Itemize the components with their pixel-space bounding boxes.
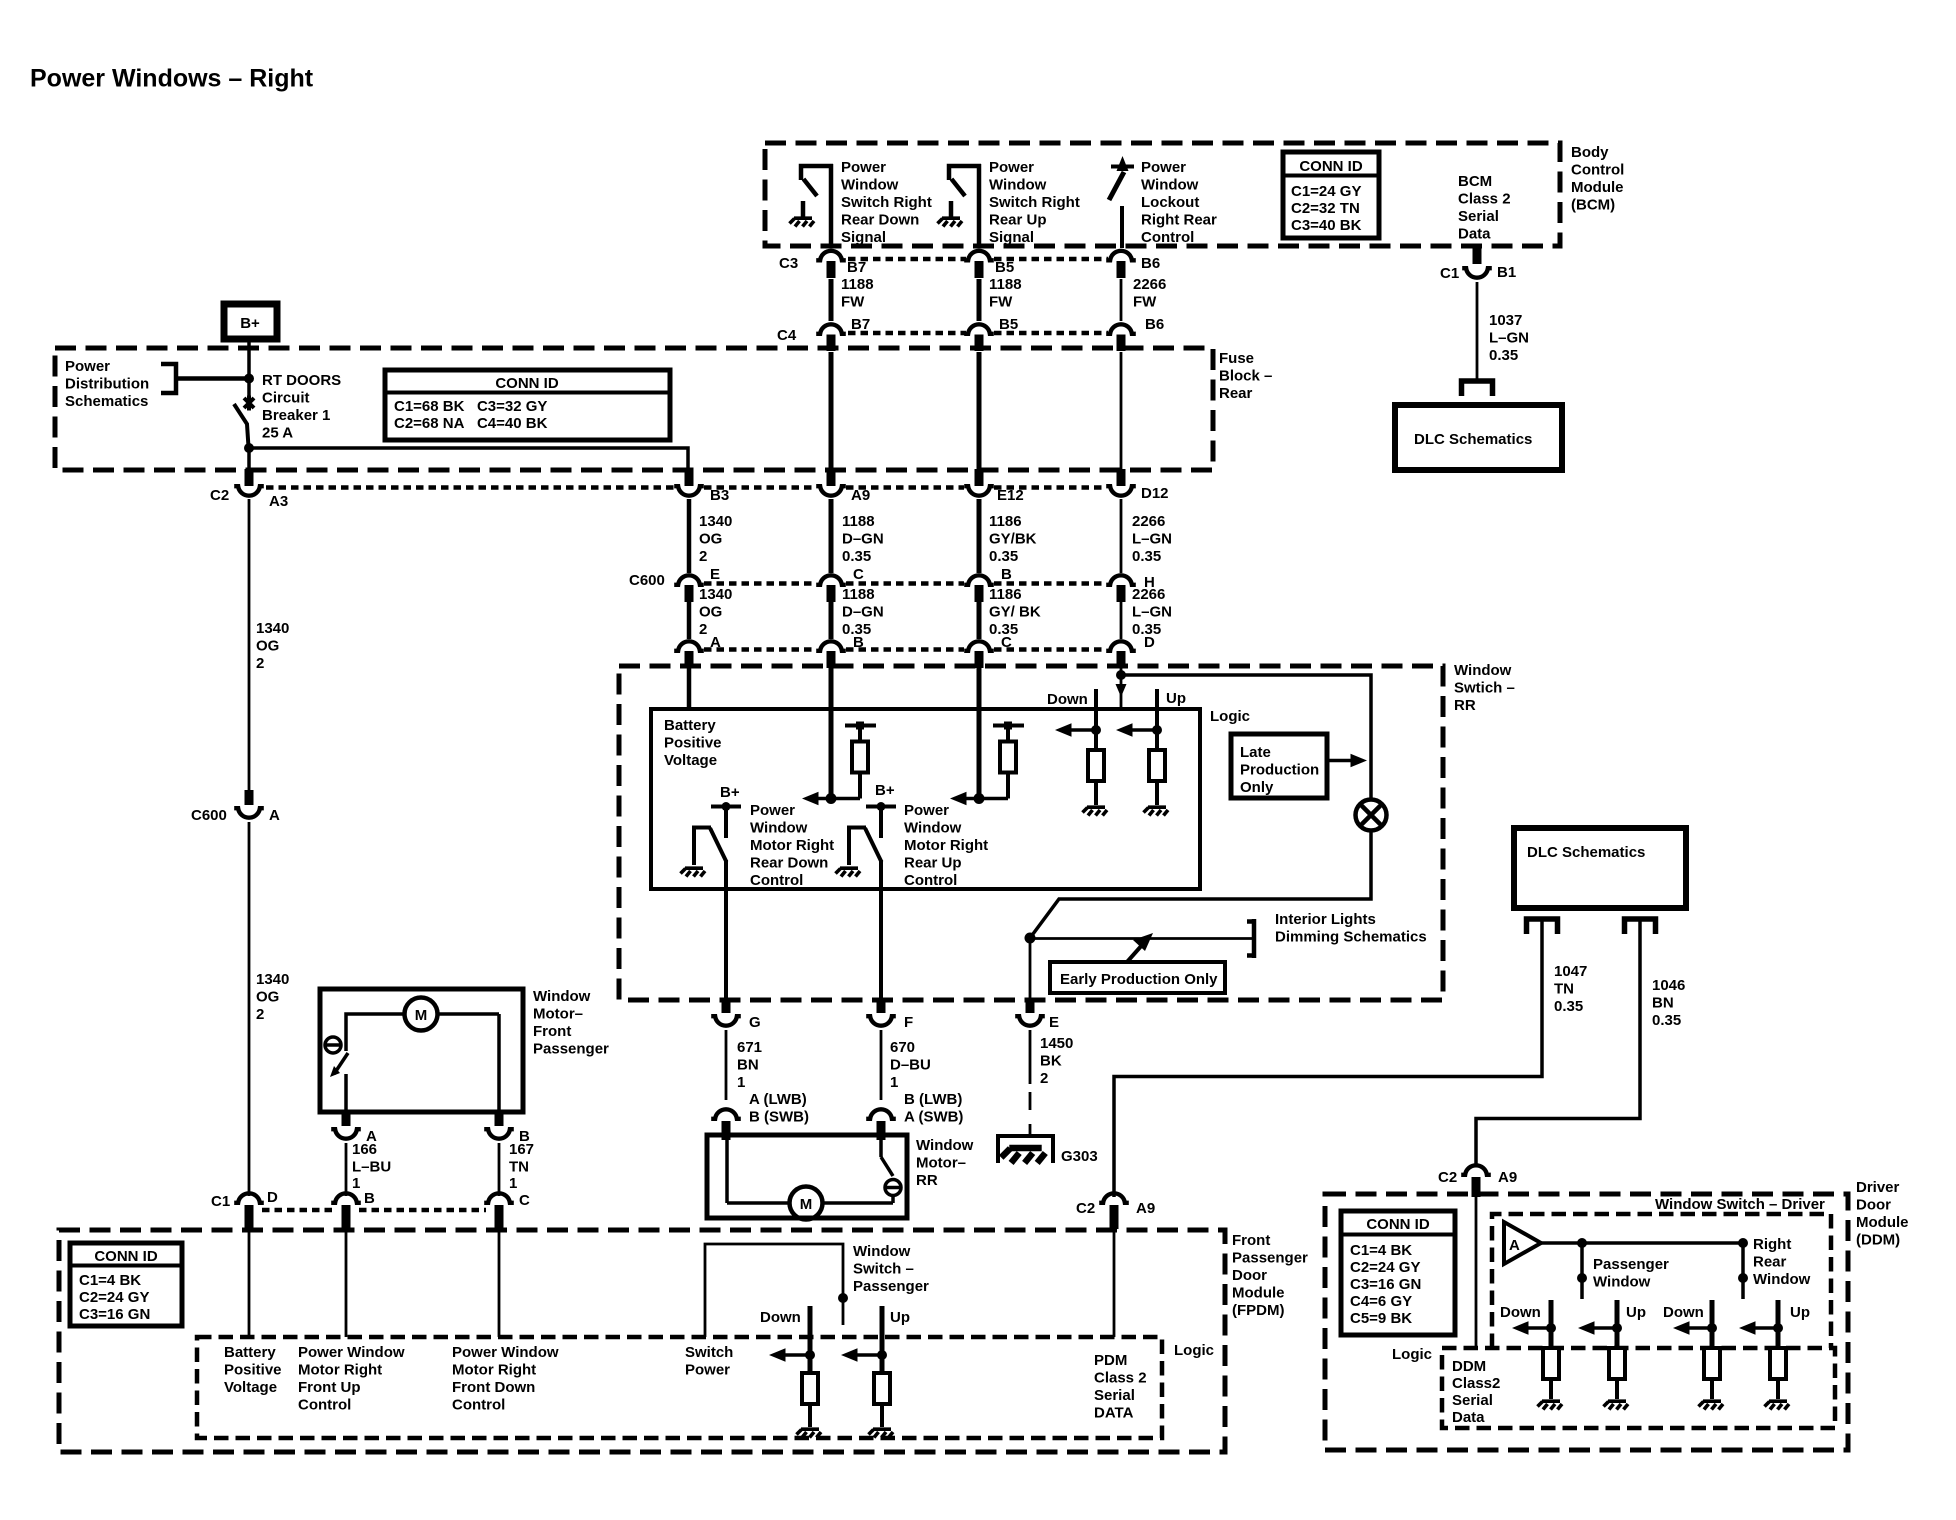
label 1046 BN 0.35 [1652,977,1685,1029]
svg-text:D: D [1144,634,1155,651]
svg-text:BK: BK [1040,1053,1062,1070]
svg-text:Block –: Block – [1219,368,1272,385]
svg-text:FW: FW [989,294,1013,311]
switch Power Window Motor Right Rear Up Control [849,828,882,1001]
wire C into logic box [977,668,982,798]
svg-text:L–BU: L–BU [352,1159,391,1176]
connector C (RR switch) [964,634,1012,651]
svg-text:D: D [267,1189,278,1206]
DDM logic dashed box [1442,1348,1835,1428]
svg-text:RR: RR [916,1172,938,1189]
Down sense leg [1055,689,1104,805]
wire label 1188 D-GN 0.35 (col2) [842,513,884,565]
svg-text:B1: B1 [1497,264,1516,281]
svg-text:Power Window: Power Window [298,1344,405,1361]
ground (switch 1) [790,218,815,226]
svg-text:Battery: Battery [664,717,716,734]
connector C600 B [964,566,1012,585]
wire H to D [1120,602,1123,639]
pin below C3 col4 [1117,261,1126,278]
amp triangle A [1504,1222,1541,1264]
pin below C4 col3 [975,335,984,352]
motor FP circuit [325,1014,499,1112]
svg-text:C2: C2 [210,487,229,504]
svg-text:DDM: DDM [1452,1358,1486,1375]
svg-text:2: 2 [699,548,707,565]
staple 1047 [1527,919,1558,934]
svg-text:Power: Power [750,802,795,819]
svg-text:Power Window: Power Window [452,1344,559,1361]
svg-text:F: F [904,1014,913,1031]
svg-text:BN: BN [1652,995,1674,1012]
DLC Schematics box (mid right) [1514,828,1686,908]
svg-text:Window: Window [750,820,808,837]
svg-text:A3: A3 [269,493,288,510]
svg-text:C600: C600 [629,572,665,589]
svg-text:Motor Right: Motor Right [750,837,834,854]
Window Switch Passenger feed bracket [705,1244,848,1337]
wire segment C3-C4 col4 [1120,279,1123,321]
svg-text:C2=24 GY: C2=24 GY [1350,1259,1420,1276]
svg-text:Motor Right: Motor Right [298,1362,382,1379]
wire C600/A down [248,822,251,1196]
CONN ID box (FPDM) [70,1243,182,1326]
svg-text:Class 2: Class 2 [1458,191,1511,208]
svg-text:CONN ID: CONN ID [94,1248,158,1265]
passenger up leg [841,1306,890,1427]
label Power Window Motor Right Rear Down Control [750,802,834,889]
svg-text:Rear: Rear [1753,1254,1787,1271]
svg-text:Module: Module [1571,179,1624,196]
wire C to B [829,602,834,639]
svg-text:A (SWB): A (SWB) [904,1109,963,1126]
connector B (FPDM) [331,1190,375,1207]
connector C600/A (left col) [191,790,280,824]
junction dot D branch [1116,670,1126,680]
svg-text:Motor Right: Motor Right [904,837,988,854]
svg-text:Passenger: Passenger [533,1041,609,1058]
svg-text:Door: Door [1232,1267,1267,1284]
svg-text:B5: B5 [995,259,1014,276]
svg-text:B: B [364,1190,375,1207]
junction dot interior lights [1025,933,1036,944]
svg-text:C3=16 GN: C3=16 GN [1350,1276,1421,1293]
svg-text:Down: Down [1500,1304,1541,1321]
wires C4 down to fuse rows [831,352,979,470]
svg-text:D–BU: D–BU [890,1057,931,1074]
staple 1046 [1625,919,1656,934]
label Power Window Motor Right Front Up Control [298,1344,405,1414]
pin C600 C [827,585,836,602]
svg-text:OG: OG [256,638,279,655]
Up sense leg [1116,689,1165,805]
label Power Window Motor Right Rear Up Control [904,802,988,889]
svg-text:GY/ BK: GY/ BK [989,604,1041,621]
dots row C4 [848,331,1108,336]
ground (rear down switch) [681,868,706,876]
svg-text:1: 1 [890,1074,898,1091]
svg-text:2: 2 [256,655,264,672]
FPDM logic dashed box [197,1337,1162,1438]
connector A9 [816,469,870,504]
svg-text:1450: 1450 [1040,1035,1073,1052]
ground (driver leg 3) [1699,1401,1724,1409]
svg-text:B (LWB): B (LWB) [904,1091,962,1108]
svg-text:Motor–: Motor– [533,1006,583,1023]
svg-text:C600: C600 [191,807,227,824]
pin A LWB [722,1121,731,1140]
svg-text:C2=68 NA C4=40 BK: C2=68 NA C4=40 BK [394,415,548,432]
switch: Power Window Switch Right Rear Down Signal [801,164,833,248]
label 1047 TN 0.35 [1554,963,1587,1015]
driver leg down 1 [1512,1300,1559,1399]
svg-text:Data: Data [1458,226,1491,243]
wire B down [498,1143,501,1196]
pin C FPDM [495,1205,504,1229]
svg-text:Up: Up [1166,690,1186,707]
wire D12 to C600 H [1120,499,1123,573]
svg-text:Door: Door [1856,1197,1891,1214]
svg-text:Window: Window [1141,177,1199,194]
svg-text:OG: OG [256,989,279,1006]
pin B FPDM [342,1205,351,1229]
switch Power Window Motor Right Rear Down Control [694,828,727,1001]
DDM dashed box [1325,1194,1848,1450]
label Power Distribution Schematics [65,358,149,410]
svg-text:2: 2 [699,621,707,638]
svg-text:C1: C1 [211,1193,230,1210]
svg-text:L–GN: L–GN [1132,604,1172,621]
svg-text:FW: FW [1133,294,1157,311]
B+ post (rear up) [866,802,896,838]
svg-text:DATA: DATA [1094,1405,1134,1422]
connector C1/B1 (BCM) [1440,248,1516,282]
svg-text:Production: Production [1240,762,1319,779]
svg-text:Class2: Class2 [1452,1375,1500,1392]
svg-text:671: 671 [737,1039,762,1056]
junction dot col3 [974,793,985,804]
junction dot right rear window [1738,1238,1748,1248]
connector D12 [1106,469,1168,502]
wire amp to drops [1541,1241,1743,1245]
svg-text:CONN ID: CONN ID [495,375,559,392]
svg-text:A9: A9 [1136,1200,1155,1217]
wire A down [345,1143,348,1196]
svg-text:M: M [800,1196,813,1213]
svg-text:Switch Right: Switch Right [989,194,1080,211]
motor RR M circle [790,1187,823,1220]
svg-text:Control: Control [452,1397,505,1414]
wire breaker to B3 column [249,448,688,470]
ground (driver leg 2) [1604,1401,1629,1409]
svg-text:Driver: Driver [1856,1179,1900,1196]
pin D [1117,651,1126,668]
wire into DDM [1475,1197,1478,1348]
svg-text:Rear: Rear [1219,385,1253,402]
wire 1037 L-GN 0.35 [1476,282,1479,381]
CONN ID box (BCM) [1283,152,1379,238]
svg-text:Window: Window [1593,1274,1651,1291]
label Battery Positive Voltage (RR) [664,717,722,769]
svg-text:Rear Down: Rear Down [750,855,828,872]
svg-text:Power: Power [989,159,1034,176]
junction dot col2 [826,793,837,804]
wire label 1188 FW col2 [841,276,874,311]
label Interior Lights Dimming Schematics [1275,911,1427,946]
connector C4 col3 [964,316,1018,334]
FPDM dashed box [59,1230,1225,1452]
svg-text:Right: Right [1753,1236,1791,1253]
svg-text:G: G [749,1014,761,1031]
svg-text:Passenger: Passenger [1593,1256,1669,1273]
svg-text:1188: 1188 [841,276,874,293]
svg-text:L–GN: L–GN [1489,330,1529,347]
wire label 670 D-BU 1 [890,1039,931,1091]
driver leg up 2 [1739,1300,1786,1399]
svg-text:Rear Up: Rear Up [904,855,962,872]
pin C600 H [1117,585,1126,602]
svg-text:Early Production Only: Early Production Only [1060,971,1218,988]
label DDM Class2 Serial Data [1452,1358,1500,1426]
wire segment C3-C4 col3 [977,279,982,321]
bracket to Power Distribution [161,364,246,393]
connector B3 [674,469,729,504]
connector C4 col2 [777,316,870,344]
svg-text:1340: 1340 [256,620,289,637]
svg-text:Distribution: Distribution [65,376,149,393]
wire C2 down to C600/A [248,499,251,792]
wire F down [880,1030,883,1100]
svg-text:(FPDM): (FPDM) [1232,1302,1285,1319]
Early Production Only box [1050,962,1225,993]
svg-text:Serial: Serial [1458,208,1499,225]
svg-text:Switch: Switch [685,1344,733,1361]
connector B (RR switch) [816,634,864,651]
svg-text:Signal: Signal [989,229,1034,246]
svg-text:TN: TN [1554,981,1574,998]
svg-text:C2: C2 [1076,1200,1095,1217]
up-switch wiper arrow (col3) [950,792,1008,806]
svg-text:1340: 1340 [699,586,732,603]
svg-text:Power: Power [685,1362,730,1379]
svg-text:RT DOORS: RT DOORS [262,372,341,389]
svg-text:Battery: Battery [224,1344,276,1361]
svg-text:CONN ID: CONN ID [1366,1216,1430,1233]
wire B+ down [247,339,251,398]
connector C3 col3 [964,251,1014,276]
svg-text:Control: Control [750,872,803,889]
connector C600 E [629,566,720,589]
svg-text:BN: BN [737,1057,759,1074]
label Fuse Block - Rear [1219,350,1272,402]
wire col4 C4 down [1120,352,1123,470]
svg-text:1188: 1188 [842,513,875,530]
svg-text:Module: Module [1856,1214,1909,1231]
svg-text:Schematics: Schematics [65,393,148,410]
connector B LWB dome [866,1109,896,1119]
wire segment C3-C4 col2 [829,279,834,321]
svg-text:Voltage: Voltage [664,752,717,769]
svg-text:C3=16 GN: C3=16 GN [79,1306,150,1323]
svg-text:Signal: Signal [841,229,886,246]
label: Power Window Switch Right Rear Down Signal [841,159,932,246]
connector A (FP motor) [331,1112,377,1145]
junction dot breaker out [244,443,254,453]
wire to dimming bracket [1030,937,1254,940]
svg-text:GY/BK: GY/BK [989,531,1037,548]
svg-text:Power: Power [904,802,949,819]
motor RR circuit [727,1140,901,1203]
svg-text:OG: OG [699,531,722,548]
svg-text:1: 1 [737,1074,745,1091]
BCM dashed box [765,143,1560,246]
svg-text:2: 2 [1040,1070,1048,1087]
svg-text:Passenger: Passenger [853,1278,929,1295]
svg-text:C1=4 BK: C1=4 BK [79,1272,141,1289]
label Driver Door Module (DDM) [1856,1179,1909,1249]
pin B LWB [877,1121,886,1140]
svg-text:B5: B5 [999,316,1018,333]
junction dot passenger window [1577,1238,1587,1248]
label Switch Power [685,1344,733,1379]
wire label 167 TN 1 [509,1141,534,1192]
svg-text:0.35: 0.35 [1132,548,1161,565]
wire label 2266 L-GN 0.35 (col4) [1132,513,1172,565]
svg-text:D–GN: D–GN [842,604,884,621]
connector C3 col4 [1106,251,1160,272]
svg-text:0.35: 0.35 [1489,347,1518,364]
svg-text:Body: Body [1571,144,1609,161]
svg-text:Module: Module [1232,1285,1285,1302]
svg-text:C2=32 TN: C2=32 TN [1291,200,1360,217]
svg-text:1188: 1188 [842,586,875,603]
drop right rear window [1738,1243,1748,1299]
svg-text:1047: 1047 [1554,963,1587,980]
pin C2 A9 right [1472,1177,1481,1197]
pin C600 E [685,585,694,602]
driver leg down 2 [1673,1300,1720,1399]
wire breaker down to C2 [247,448,251,470]
svg-text:Voltage: Voltage [224,1379,277,1396]
svg-text:(BCM): (BCM) [1571,197,1615,214]
circuit breaker RT DOORS [234,396,254,448]
svg-text:C3: C3 [779,255,798,272]
connector C2/A9 (right) [1438,1165,1517,1186]
connector B (FP motor) [484,1112,530,1145]
svg-text:C2: C2 [1438,1169,1457,1186]
svg-text:D12: D12 [1141,485,1169,502]
svg-text:B+: B+ [240,315,260,332]
junction dot at breaker top [244,374,254,384]
svg-text:Interior Lights: Interior Lights [1275,911,1376,928]
terminal staple into DLC [1462,381,1493,396]
DLC Schematics box (top) [1395,405,1562,470]
wire E12 to C600 B [977,499,982,573]
wire E down from junction [1029,938,1032,1002]
svg-text:670: 670 [890,1039,915,1056]
svg-text:FW: FW [841,294,865,311]
down-switch wiper arrow (col2) [802,792,860,806]
wire A9 to C600 C [829,499,834,573]
wire label 1340 OG 2 (left col) [256,620,289,672]
pin below C4 col4 [1117,335,1126,352]
ground (passenger up) [869,1429,894,1437]
connector C2/A9 (mid) [1076,1193,1155,1217]
wire 1047 TN 0.35 [1114,921,1542,1197]
connector C1/D [211,1189,278,1210]
svg-text:Rear Down: Rear Down [841,212,919,229]
B+ post (rear down) [711,802,741,838]
svg-text:M: M [415,1007,428,1024]
G303 ground cradle [998,1136,1053,1163]
svg-text:Class 2: Class 2 [1094,1370,1147,1387]
svg-text:Up: Up [890,1309,910,1326]
svg-text:Power: Power [841,159,886,176]
svg-text:1186: 1186 [989,586,1022,603]
svg-text:D–GN: D–GN [842,531,884,548]
passenger down leg [769,1306,818,1427]
dots row C3 [848,257,1108,262]
svg-text:Down: Down [760,1309,801,1326]
pin A [685,651,694,668]
arrow Early Production [1127,933,1153,962]
svg-text:0.35: 0.35 [989,548,1018,565]
svg-text:Logic: Logic [1392,1346,1432,1363]
connector G [711,998,760,1031]
svg-text:25 A: 25 A [262,425,293,442]
label BCM Class 2 Serial Data [1458,173,1511,243]
label: Power Window Switch Right Rear Up Signal [989,159,1080,246]
svg-text:1186: 1186 [989,513,1022,530]
svg-text:166: 166 [352,1141,377,1158]
Late Production Only box [1231,734,1327,798]
svg-text:A9: A9 [1498,1169,1517,1186]
svg-text:B+: B+ [875,782,895,799]
wire 1046 BN 0.35 [1476,921,1640,1164]
logic box (RR switch) [651,709,1200,889]
wire label 166 L-BU 1 [352,1141,391,1192]
svg-text:Serial: Serial [1094,1387,1135,1404]
dots row C1 [262,1208,486,1213]
svg-text:E: E [1049,1014,1059,1031]
svg-text:C4: C4 [777,327,797,344]
connector C3 row: dome col A9 [779,251,866,276]
svg-text:BCM: BCM [1458,173,1492,190]
ground (down leg) [1083,807,1108,815]
svg-text:Late: Late [1240,744,1271,761]
Window Motor Front Passenger box [320,989,523,1112]
connector C600 C [816,566,864,585]
svg-text:Window: Window [853,1243,911,1260]
connector B (LWB) label [904,1091,963,1126]
svg-text:1: 1 [509,1175,517,1192]
wires into FPDM [249,1229,499,1337]
label Window Swtich - RR [1454,662,1515,714]
wire label 1188 D-GN 0.35 (below C600 C) [842,586,884,638]
svg-text:Control: Control [904,872,957,889]
ground (driver leg 1) [1538,1401,1563,1409]
svg-text:Window: Window [1454,662,1512,679]
svg-text:Power: Power [1141,159,1186,176]
connector D (RR switch) [1106,634,1155,651]
label Window Motor RR [916,1137,974,1189]
label Front Passenger Door Module (FPDM) [1232,1232,1308,1319]
svg-text:B (SWB): B (SWB) [749,1109,809,1126]
connector E12 [964,469,1024,504]
svg-text:Breaker 1: Breaker 1 [262,407,330,424]
pull-up resistor chain col3 [993,722,1024,799]
svg-text:2266: 2266 [1132,513,1165,530]
